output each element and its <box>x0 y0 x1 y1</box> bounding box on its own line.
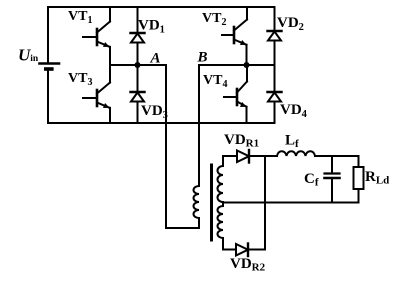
wire: VD3 anode to bottom rail <box>137 102 139 124</box>
svg-text:VD4: VD4 <box>280 102 308 120</box>
diode VDR1 <box>237 150 249 163</box>
transistor VT4 <box>224 82 247 108</box>
svg-text:VT4: VT4 <box>203 73 227 90</box>
wire: bottom rail <box>48 122 274 124</box>
diode VDR2 <box>236 244 248 257</box>
diode VD1 <box>131 33 145 43</box>
svg-text:VDR1: VDR1 <box>224 132 259 150</box>
wire: VT1 emitter down to midpoint <box>109 47 111 65</box>
wire: rectifier output vertical (VDR1 to VDR2 cathode join) <box>264 156 266 250</box>
wire: top rail <box>48 6 274 8</box>
svg-text:B: B <box>197 50 208 66</box>
wire: VT4 emitter to bottom rail <box>246 107 248 123</box>
wire: VT3 emitter to bottom rail <box>109 108 111 123</box>
svg-text:VD3: VD3 <box>141 103 168 121</box>
transistor VT2 <box>222 20 247 46</box>
svg-text:Cf: Cf <box>304 171 319 189</box>
wire: left rail lower (battery negative to bottom rail) <box>47 69 49 123</box>
battery Uin <box>40 64 60 70</box>
svg-text:VT2: VT2 <box>202 11 226 28</box>
wire: VD2 anode down to VD4 <box>274 41 276 93</box>
wire: VT4 collector up to node B dot <box>246 65 248 82</box>
svg-text:Lf: Lf <box>285 133 299 151</box>
wire: secondary top to VDR1 anode <box>223 155 237 157</box>
junction dot at VD1/VD3 midpoint <box>135 62 141 68</box>
junction dot at VT2/VT4 midpoint <box>244 62 250 68</box>
svg-text:VT3: VT3 <box>68 71 92 88</box>
capacitor Cf <box>325 156 340 203</box>
wire: VD1 top to rail <box>137 7 139 33</box>
inductor Lf <box>277 151 315 156</box>
transformer T core <box>210 165 213 240</box>
wire: VT3 collector up to midpoint <box>109 65 111 83</box>
wire: primary bottom horizontal (A to winding) <box>166 227 199 229</box>
svg-text:VD1: VD1 <box>138 18 165 36</box>
transistor VT1 <box>83 22 110 48</box>
svg-text:VD2: VD2 <box>277 15 304 33</box>
wire: VD2 top to rail <box>274 7 276 31</box>
diode VD4 <box>268 92 282 102</box>
wire: node B horizontal <box>199 64 275 66</box>
wire: VDR2 cathode to output vertical <box>248 249 265 251</box>
resistor RLd <box>354 156 364 203</box>
wire: VT2 emitter down to node B dot <box>246 45 248 65</box>
wire: center tap rail <box>223 202 359 204</box>
transformer T secondary upper winding <box>218 156 224 202</box>
transistor VT3 <box>83 83 110 109</box>
diode VD2 <box>268 31 282 41</box>
svg-text:A: A <box>150 51 161 67</box>
wire: secondary bottom to VDR2 anode <box>223 249 236 251</box>
wire: node B drop to transformer primary top <box>198 65 200 186</box>
transformer T secondary lower winding <box>218 202 224 250</box>
wire: VD4 anode to bottom rail <box>274 102 276 124</box>
svg-text:VDR2: VDR2 <box>230 256 266 274</box>
wire: left midpoint horizontal to node A corner <box>110 64 166 66</box>
wire: VD1 anode to midpoint and down to VD3 <box>137 43 139 93</box>
transformer T primary winding <box>194 186 199 228</box>
svg-text:RLd: RLd <box>365 169 389 187</box>
wire: node A drop to transformer primary bottom <box>165 65 167 228</box>
wire: VT1 collector to top rail <box>109 7 111 22</box>
wire: left rail upper (battery positive to top rail) <box>47 7 49 63</box>
svg-text:Uin: Uin <box>18 46 39 65</box>
wire: VDR1 cathode to inductor <box>249 155 277 157</box>
diode VD3 <box>131 92 145 102</box>
wire: VT2 collector to top rail <box>246 7 248 20</box>
svg-text:VT1: VT1 <box>68 9 92 26</box>
wire: inductor to output corner <box>315 155 359 157</box>
